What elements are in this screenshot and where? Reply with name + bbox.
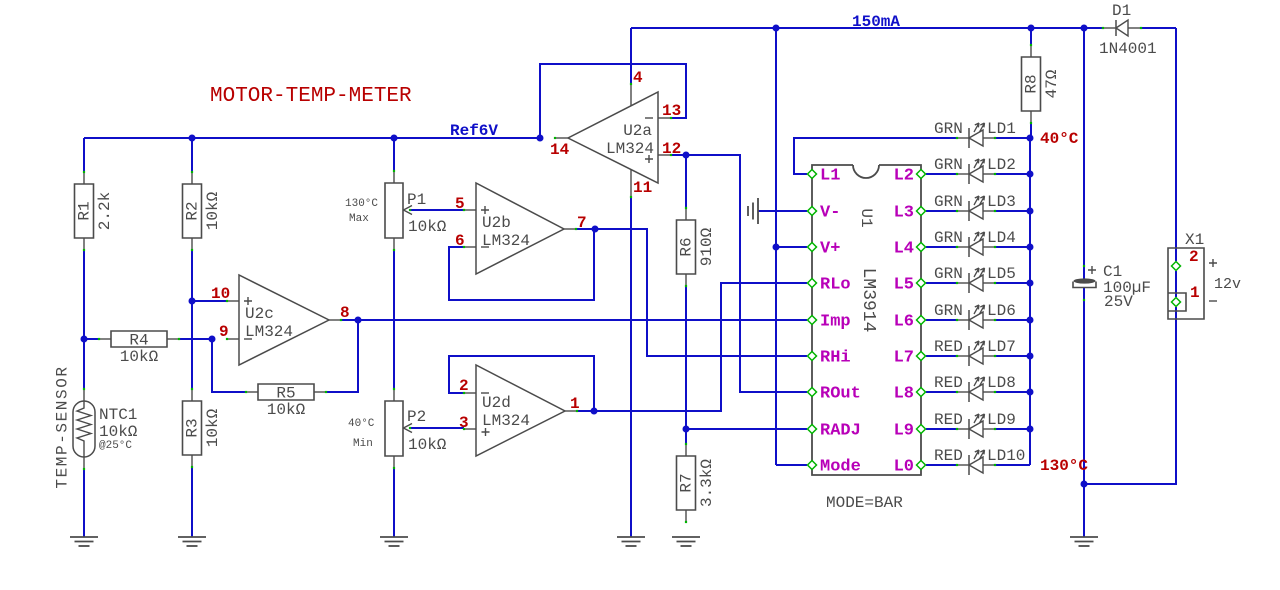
svg-text:1: 1	[570, 395, 580, 413]
svg-text:LD8: LD8	[987, 374, 1016, 392]
svg-text:NTC1: NTC1	[99, 406, 137, 424]
pin number 5	[455, 195, 465, 213]
svg-text:X1: X1	[1185, 231, 1204, 249]
svg-text:4: 4	[633, 69, 643, 87]
pin number 2 (X1)	[1189, 248, 1199, 266]
wire: R8 top to bus	[1030, 28, 1032, 45]
svg-text:LD7: LD7	[987, 338, 1016, 356]
wire: P1 wiper to U2b pin5	[409, 209, 464, 211]
pin number 4	[633, 69, 643, 87]
svg-text:10kΩ: 10kΩ	[204, 191, 222, 230]
svg-text:150mA: 150mA	[852, 13, 900, 31]
svg-text:GRN: GRN	[934, 193, 963, 211]
LED LD2	[934, 156, 1016, 184]
svg-text:U2c: U2c	[245, 305, 274, 323]
U1 right pins L2-L0	[894, 167, 926, 477]
label: MODE=BAR	[826, 494, 903, 512]
svg-text:P2: P2	[407, 408, 426, 426]
wire: Mode branch to U1	[776, 464, 807, 466]
pin number 3	[459, 414, 469, 432]
svg-text:9: 9	[219, 323, 229, 341]
svg-text:LD6: LD6	[987, 302, 1016, 320]
label 130C (red)	[1040, 457, 1088, 475]
ground (U2a pin11)	[617, 537, 645, 546]
svg-text:RHi: RHi	[820, 349, 851, 368]
svg-text:L2: L2	[894, 167, 914, 186]
svg-text:LM324: LM324	[245, 323, 293, 341]
svg-text:@25°C: @25°C	[99, 440, 132, 452]
svg-text:D1: D1	[1112, 2, 1131, 20]
svg-text:Max: Max	[349, 213, 369, 225]
svg-text:L8: L8	[894, 385, 914, 404]
svg-text:RLo: RLo	[820, 276, 851, 295]
wire: left rail R1/NTC1 branch (node A)	[83, 138, 85, 537]
svg-text:40°C: 40°C	[348, 418, 375, 430]
LED LD5	[934, 265, 1016, 293]
svg-text:R7: R7	[678, 473, 696, 492]
svg-text:U1: U1	[857, 208, 875, 227]
resistor R5	[245, 384, 327, 419]
wire: U2b output pin7 to U1 RHi	[576, 229, 807, 356]
wire: U2a pin4 to bus	[630, 28, 632, 84]
svg-text:RED: RED	[934, 447, 963, 465]
ground (U1 V-, rotated)	[748, 198, 758, 224]
LED LD1	[934, 120, 1016, 148]
svg-text:130°C: 130°C	[1040, 457, 1088, 475]
svg-text:V+: V+	[820, 240, 840, 259]
svg-text:LD5: LD5	[987, 265, 1016, 283]
potentiometer P2	[385, 388, 447, 469]
wire: U2a pin11 to ground	[630, 197, 632, 537]
svg-text:ROut: ROut	[820, 385, 861, 404]
ground (temp sensor)	[70, 537, 98, 546]
wire: U2d feedback pin2-pin1	[449, 356, 594, 411]
pin number 6	[455, 232, 465, 250]
LED LD9	[934, 411, 1016, 439]
svg-text:11: 11	[633, 179, 652, 197]
op-amp U2d	[463, 365, 578, 456]
svg-text:14: 14	[550, 141, 570, 159]
svg-text:R8: R8	[1023, 74, 1041, 93]
LED LD10	[934, 447, 1025, 475]
ground (R7)	[672, 537, 700, 546]
svg-text:GRN: GRN	[934, 120, 963, 138]
pin number 7	[577, 214, 587, 232]
net label Ref6V	[450, 122, 498, 140]
svg-text:R5: R5	[276, 385, 295, 403]
svg-text:LM324: LM324	[482, 412, 530, 430]
svg-text:910Ω: 910Ω	[698, 227, 716, 266]
wire: U2c inverting node to R5	[212, 339, 246, 392]
svg-text:L0: L0	[894, 458, 914, 477]
pin number 11	[633, 179, 652, 197]
pin number 14	[550, 141, 570, 159]
label: P2 range 40C Min	[348, 418, 375, 450]
pin number 13	[662, 102, 681, 120]
wire: P1-P2 divider chain and P2 to ground	[393, 138, 395, 537]
svg-text:10kΩ: 10kΩ	[120, 348, 159, 366]
pin number 1 (X1)	[1190, 284, 1200, 302]
resistor R8	[1022, 44, 1062, 124]
wire: RADJ node to U1 RADJ pin	[686, 428, 807, 430]
wire: R6 bottom to RADJ node	[685, 286, 687, 444]
op-amp U2c	[226, 275, 342, 365]
pin number 8	[340, 304, 350, 322]
svg-text:25V: 25V	[1104, 293, 1133, 311]
svg-text:12: 12	[662, 140, 681, 158]
svg-text:10kΩ: 10kΩ	[408, 218, 447, 236]
svg-text:10kΩ: 10kΩ	[267, 401, 306, 419]
svg-text:2: 2	[1189, 248, 1199, 266]
pin number 2	[459, 377, 469, 395]
svg-text:12v: 12v	[1214, 276, 1241, 293]
ground (power)	[1070, 537, 1098, 546]
svg-text:L1: L1	[820, 167, 840, 186]
resistor R1	[75, 171, 115, 251]
resistor R3	[183, 388, 223, 468]
svg-text:3: 3	[459, 414, 469, 432]
LED LD6	[934, 302, 1016, 330]
svg-text:RED: RED	[934, 411, 963, 429]
svg-text:40°C: 40°C	[1040, 130, 1079, 148]
svg-text:R2: R2	[184, 201, 202, 220]
svg-text:L3: L3	[894, 204, 914, 223]
pin number 1	[570, 395, 580, 413]
svg-text:LM324: LM324	[482, 232, 530, 250]
label: TEMP-SENSOR	[54, 365, 72, 488]
wire: U2a feedback pin14-pin13	[540, 64, 686, 138]
wire: C1 to ground node	[1083, 288, 1085, 537]
svg-text:U2a: U2a	[623, 122, 652, 140]
svg-text:10kΩ: 10kΩ	[99, 423, 138, 441]
svg-text:R6: R6	[678, 237, 696, 256]
svg-text:RED: RED	[934, 374, 963, 392]
svg-text:L4: L4	[894, 240, 914, 259]
svg-text:7: 7	[577, 214, 587, 232]
svg-text:10kΩ: 10kΩ	[408, 436, 447, 454]
svg-text:LM3914: LM3914	[858, 268, 878, 333]
wire: C1 rail from bus	[1083, 28, 1085, 279]
op-amp U2b	[463, 183, 577, 274]
svg-text:3.3kΩ: 3.3kΩ	[698, 459, 716, 507]
wire: R4 connections	[84, 338, 212, 340]
U1 left pins L1 V- V+ RLo Imp RHi ROut RADJ Mode	[808, 167, 861, 477]
svg-text:GRN: GRN	[934, 302, 963, 320]
svg-text:RED: RED	[934, 338, 963, 356]
svg-text:10kΩ: 10kΩ	[204, 408, 222, 447]
wire: V+ branch to U1	[776, 246, 807, 248]
svg-text:47Ω: 47Ω	[1043, 69, 1061, 98]
LED LD3	[934, 193, 1016, 221]
svg-text:6: 6	[455, 232, 465, 250]
wire: V+ / Mode drop from bus	[775, 28, 777, 465]
svg-text:L6: L6	[894, 313, 914, 332]
svg-text:13: 13	[662, 102, 681, 120]
wire: bus to X1 pin2	[1175, 28, 1177, 297]
svg-text:1N4001: 1N4001	[1099, 40, 1157, 58]
wire: LED anode rail	[1029, 138, 1031, 465]
svg-text:U2b: U2b	[482, 214, 511, 232]
svg-text:Min: Min	[353, 438, 373, 450]
wire: Ref6V rail from R1 top to U2a output	[84, 137, 540, 139]
wire: U2c pin10 from divider	[192, 300, 227, 302]
wire: P2 wiper to U2d pin3	[409, 427, 464, 429]
svg-text:LD4: LD4	[987, 229, 1016, 247]
svg-text:2: 2	[459, 377, 469, 395]
LED LD8	[934, 374, 1016, 402]
svg-text:LD10: LD10	[987, 447, 1025, 465]
label: P1 range 130C Max	[345, 198, 378, 225]
wire: R2/R3 divider rail (node B)	[191, 138, 193, 537]
LED LD7	[934, 338, 1016, 366]
svg-text:RADJ: RADJ	[820, 422, 861, 441]
thermistor NTC1	[73, 388, 138, 470]
wire: U2d output pin1 to U1 RLo	[577, 283, 807, 411]
pin number 12	[662, 140, 681, 158]
resistor R4	[98, 331, 180, 366]
label 40C (red)	[1040, 130, 1079, 148]
svg-text:L5: L5	[894, 276, 914, 295]
svg-text:GRN: GRN	[934, 156, 963, 174]
resistor R2	[183, 171, 223, 251]
svg-text:Mode: Mode	[820, 458, 861, 477]
svg-text:Imp: Imp	[820, 313, 851, 332]
svg-text:V-: V-	[820, 204, 840, 223]
svg-text:L9: L9	[894, 422, 914, 441]
pin number 9	[219, 323, 229, 341]
LED LD4	[934, 229, 1016, 257]
pin number 10	[211, 285, 230, 303]
svg-text:10: 10	[211, 285, 230, 303]
wire: top +12V bus 150mA	[631, 27, 1176, 29]
ground (P2)	[380, 537, 408, 546]
svg-text:1: 1	[1190, 284, 1200, 302]
svg-text:L7: L7	[894, 349, 914, 368]
svg-text:2.2k: 2.2k	[96, 192, 114, 230]
svg-text:LD9: LD9	[987, 411, 1016, 429]
ground (R3)	[178, 537, 206, 546]
op-amp U2a	[554, 83, 672, 198]
resistor R6	[677, 207, 717, 287]
svg-text:130°C: 130°C	[345, 198, 378, 210]
svg-text:U2d: U2d	[482, 394, 511, 412]
wire: U2b feedback pin6-pin7	[449, 229, 594, 300]
svg-text:LD2: LD2	[987, 156, 1016, 174]
svg-text:LD1: LD1	[987, 120, 1016, 138]
svg-text:Ref6V: Ref6V	[450, 122, 498, 140]
wire: U2a pin12 node to R6 and U1 ROut	[671, 155, 807, 392]
net label 150mA	[852, 13, 900, 31]
wire: U2c output pin8 to U1 Imp	[341, 319, 807, 321]
wire: V- ground to U1	[758, 210, 807, 212]
svg-text:GRN: GRN	[934, 265, 963, 283]
wire: U1 L1 to LD1	[794, 138, 957, 174]
svg-text:MOTOR-TEMP-METER: MOTOR-TEMP-METER	[210, 85, 412, 108]
svg-text:P1: P1	[407, 191, 426, 209]
svg-text:TEMP-SENSOR: TEMP-SENSOR	[54, 365, 72, 488]
svg-text:LM324: LM324	[606, 140, 654, 158]
svg-text:R3: R3	[184, 418, 202, 437]
wire: ground node to X1 pin1	[1084, 307, 1176, 484]
potentiometer P1	[385, 170, 447, 251]
title MOTOR-TEMP-METER	[210, 85, 412, 108]
IC U1 LM3914 body	[812, 165, 921, 475]
svg-text:R1: R1	[76, 201, 94, 220]
capacitor C1 100uF 25V	[1073, 263, 1151, 311]
connector X1 12v	[1168, 231, 1241, 319]
diode D1 1N4001	[1099, 2, 1157, 58]
wire: LED row connections	[926, 138, 1030, 465]
svg-text:GRN: GRN	[934, 229, 963, 247]
svg-text:R4: R4	[129, 332, 148, 350]
svg-text:LD3: LD3	[987, 193, 1016, 211]
svg-text:8: 8	[340, 304, 350, 322]
wire: R8 bottom to LED rail	[1030, 123, 1032, 138]
resistor R7	[677, 443, 717, 523]
wire: R5 to U2c output	[325, 320, 358, 392]
svg-text:MODE=BAR: MODE=BAR	[826, 494, 903, 512]
svg-text:5: 5	[455, 195, 465, 213]
